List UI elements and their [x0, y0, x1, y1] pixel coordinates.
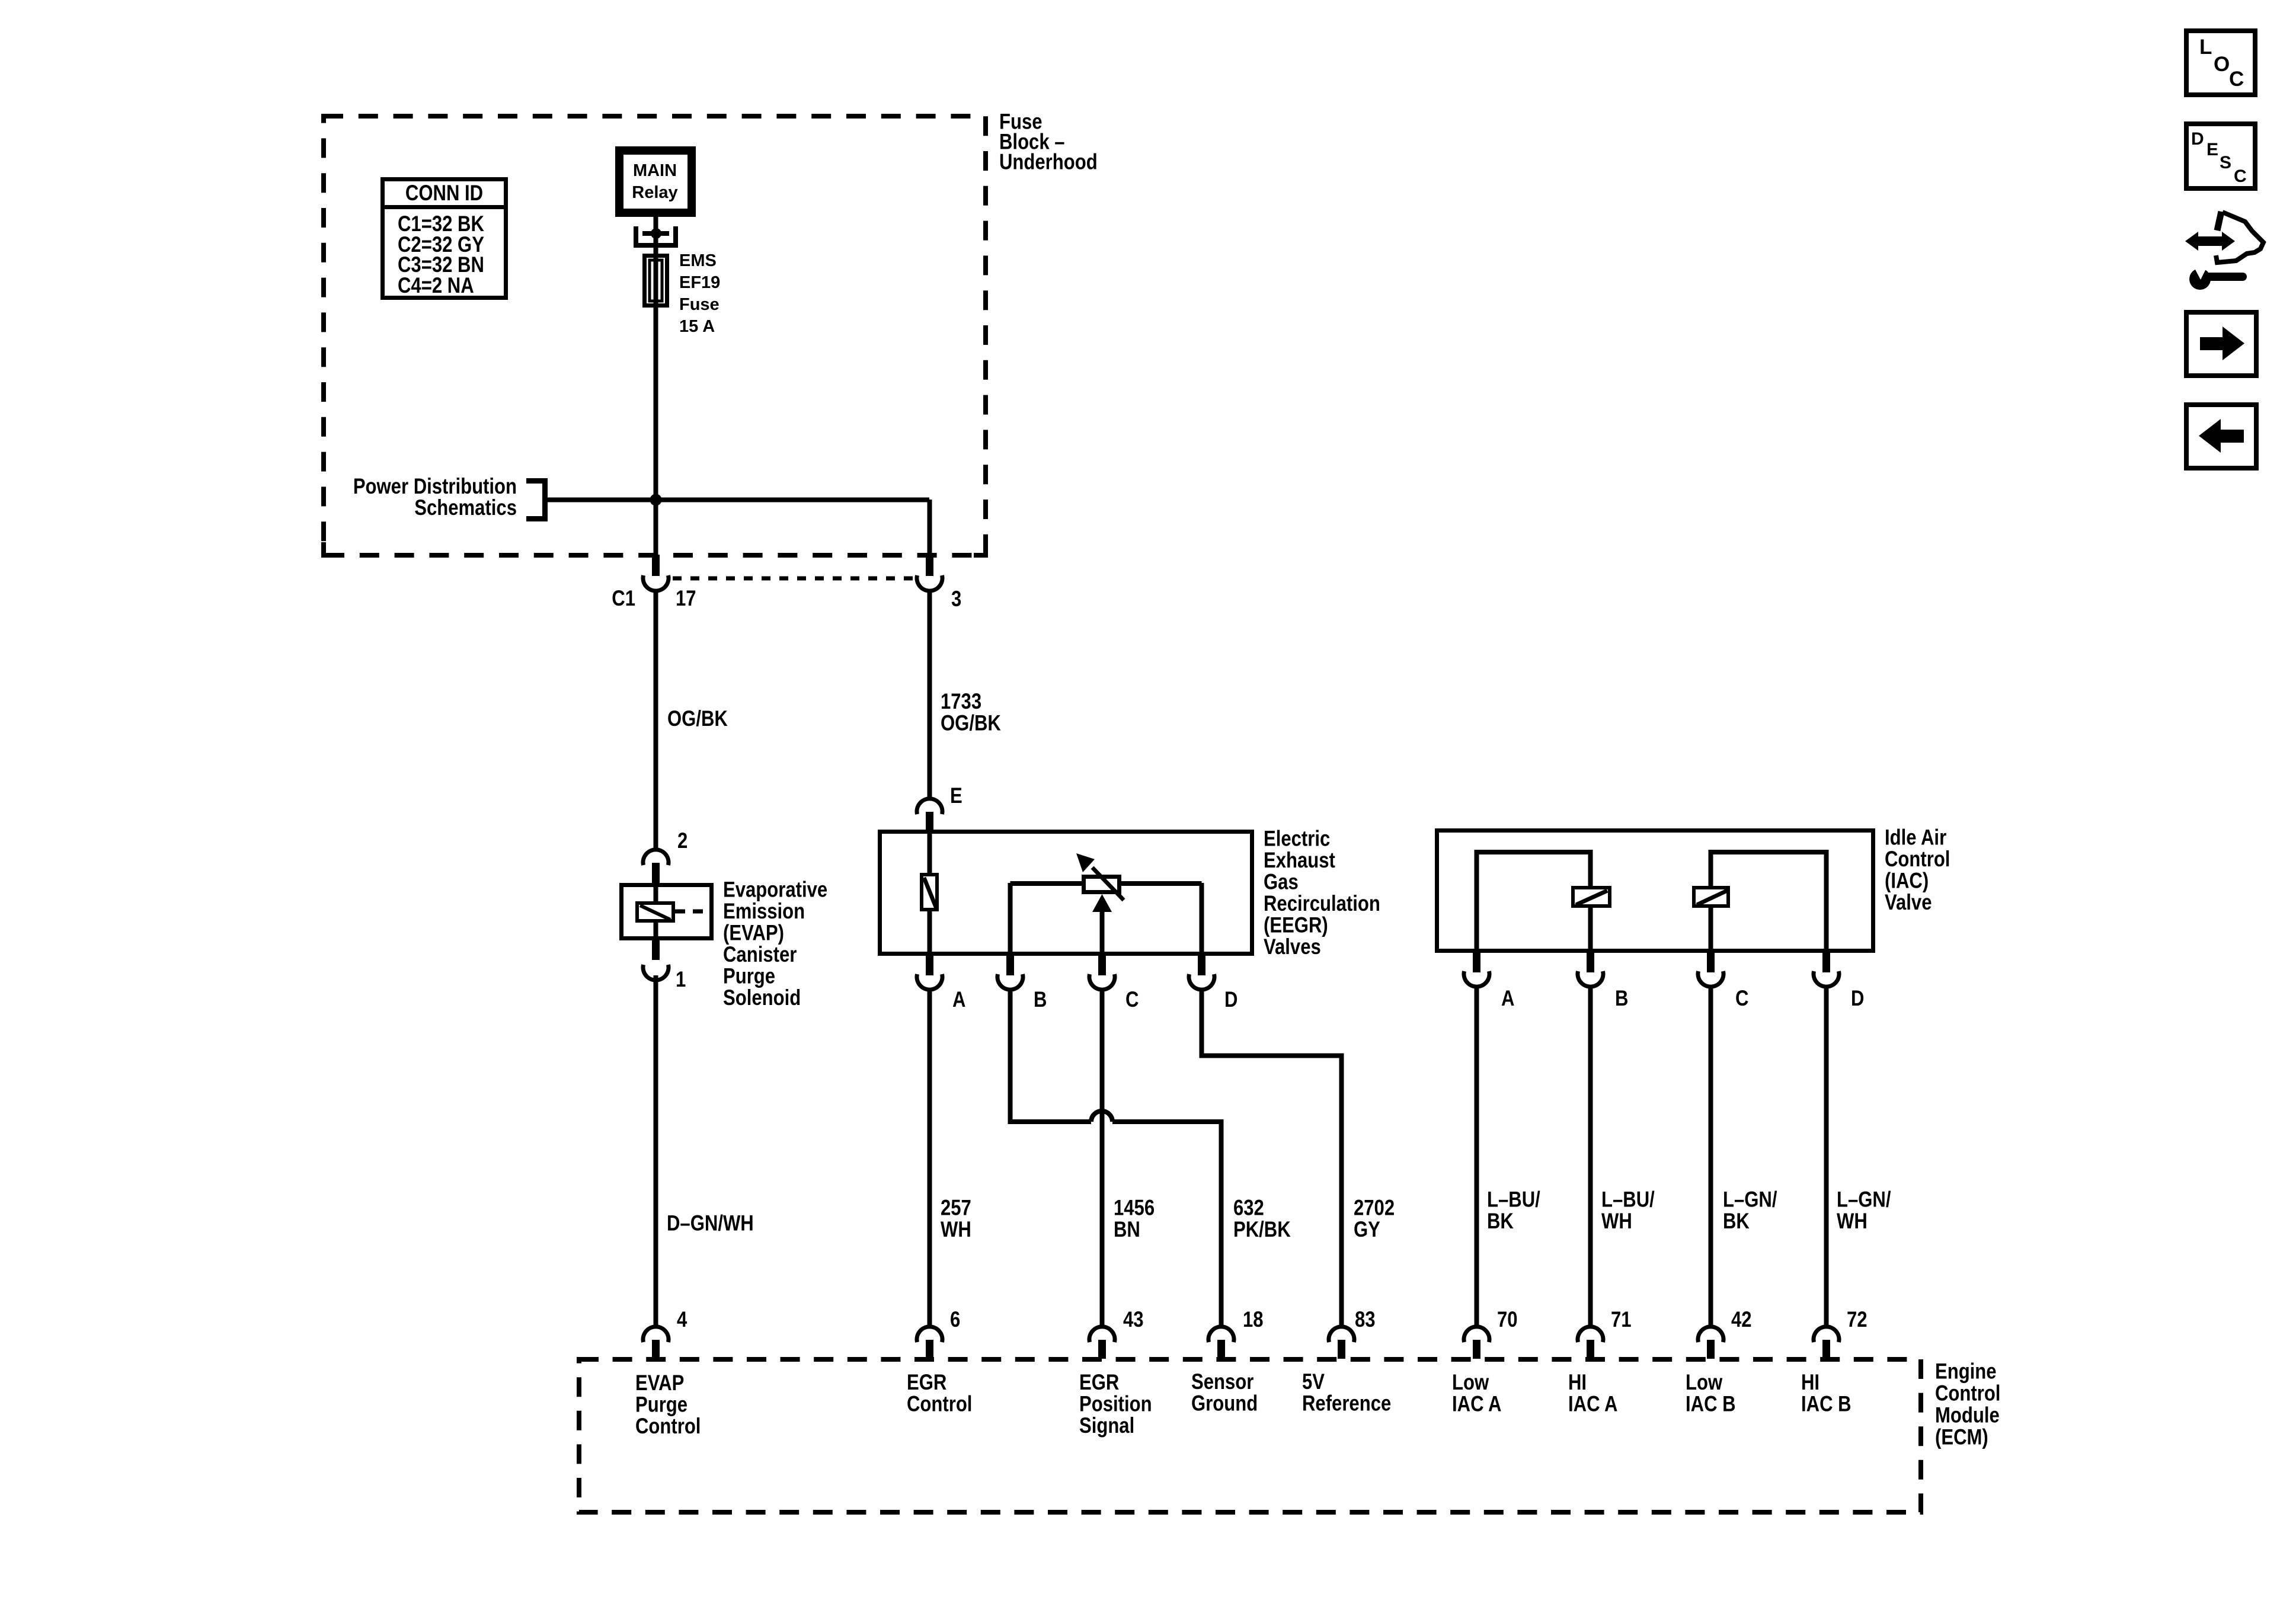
svg-text:L–GN/: L–GN/ — [1837, 1188, 1891, 1212]
svg-text:Module: Module — [1935, 1403, 2000, 1427]
svg-text:(EVAP): (EVAP) — [723, 921, 784, 945]
svg-text:HI: HI — [1568, 1371, 1587, 1395]
svg-text:Evaporative: Evaporative — [723, 878, 827, 902]
svg-text:C: C — [1735, 987, 1748, 1011]
svg-text:Recirculation: Recirculation — [1264, 892, 1380, 916]
svg-text:L–BU/: L–BU/ — [1487, 1188, 1540, 1212]
svg-text:S: S — [2220, 153, 2231, 172]
svg-text:IAC B: IAC B — [1686, 1392, 1736, 1416]
svg-text:O: O — [2214, 53, 2230, 76]
svg-text:GY: GY — [1354, 1218, 1380, 1242]
svg-text:IAC A: IAC A — [1568, 1392, 1617, 1416]
svg-text:83: 83 — [1355, 1308, 1376, 1332]
svg-text:Control: Control — [635, 1414, 701, 1439]
svg-text:Purge: Purge — [635, 1393, 687, 1417]
svg-text:Solenoid: Solenoid — [723, 986, 801, 1010]
svg-text:L–BU/: L–BU/ — [1601, 1188, 1655, 1212]
svg-text:IAC A: IAC A — [1452, 1392, 1501, 1416]
svg-text:BK: BK — [1723, 1209, 1750, 1234]
svg-text:6: 6 — [950, 1308, 960, 1332]
svg-text:BN: BN — [1114, 1218, 1140, 1242]
svg-text:Low: Low — [1452, 1371, 1489, 1395]
svg-text:Underhood: Underhood — [999, 150, 1098, 174]
svg-text:E: E — [2207, 140, 2218, 159]
svg-text:EVAP: EVAP — [635, 1371, 684, 1395]
svg-text:D: D — [1224, 988, 1237, 1012]
svg-text:5V: 5V — [1302, 1370, 1325, 1394]
svg-text:71: 71 — [1611, 1308, 1632, 1332]
svg-text:72: 72 — [1847, 1308, 1868, 1332]
svg-text:EGR: EGR — [907, 1371, 946, 1395]
svg-text:Reference: Reference — [1302, 1391, 1391, 1416]
svg-text:A: A — [1501, 987, 1514, 1011]
svg-text:MAIN: MAIN — [633, 161, 677, 180]
svg-text:Relay: Relay — [632, 183, 677, 202]
svg-text:CONN ID: CONN ID — [405, 181, 483, 206]
svg-text:Position: Position — [1079, 1392, 1152, 1416]
svg-text:B: B — [1615, 987, 1628, 1011]
svg-text:(EEGR): (EEGR) — [1264, 913, 1328, 937]
svg-text:Fuse: Fuse — [679, 295, 720, 314]
svg-text:Control: Control — [1885, 847, 1950, 872]
svg-text:Valve: Valve — [1885, 891, 1932, 915]
svg-text:B: B — [1034, 988, 1047, 1012]
svg-text:EGR: EGR — [1079, 1371, 1119, 1395]
svg-text:BK: BK — [1487, 1209, 1514, 1234]
svg-text:42: 42 — [1731, 1308, 1752, 1332]
svg-text:D: D — [1851, 987, 1864, 1011]
svg-text:Sensor: Sensor — [1191, 1370, 1253, 1394]
svg-text:(IAC): (IAC) — [1885, 869, 1929, 893]
svg-text:70: 70 — [1497, 1308, 1518, 1332]
svg-text:257: 257 — [941, 1196, 971, 1220]
svg-text:632: 632 — [1233, 1196, 1264, 1220]
svg-text:HI: HI — [1801, 1371, 1819, 1395]
svg-text:C: C — [1125, 988, 1139, 1012]
svg-text:C: C — [2229, 68, 2244, 91]
svg-text:WH: WH — [941, 1218, 971, 1242]
svg-text:Idle Air: Idle Air — [1885, 825, 1946, 850]
svg-text:WH: WH — [1601, 1209, 1632, 1234]
svg-text:Engine: Engine — [1935, 1359, 1997, 1384]
svg-text:PK/BK: PK/BK — [1233, 1218, 1291, 1242]
svg-text:2: 2 — [677, 829, 687, 853]
svg-text:Control: Control — [1935, 1381, 2000, 1406]
svg-text:Canister: Canister — [723, 943, 797, 967]
svg-text:Valves: Valves — [1264, 935, 1321, 959]
svg-text:Electric: Electric — [1264, 827, 1330, 851]
svg-text:Low: Low — [1686, 1371, 1723, 1395]
svg-text:Power Distribution: Power Distribution — [353, 475, 517, 499]
svg-text:15 A: 15 A — [679, 317, 715, 336]
svg-text:Emission: Emission — [723, 900, 805, 924]
svg-text:E: E — [950, 784, 962, 808]
svg-text:OG/BK: OG/BK — [667, 707, 728, 731]
svg-text:EF19: EF19 — [679, 273, 720, 292]
svg-text:WH: WH — [1837, 1209, 1868, 1234]
svg-text:D–GN/WH: D–GN/WH — [667, 1211, 754, 1235]
svg-text:IAC B: IAC B — [1801, 1392, 1851, 1416]
svg-text:Control: Control — [907, 1392, 972, 1416]
svg-text:Signal: Signal — [1079, 1414, 1134, 1438]
svg-text:Purge: Purge — [723, 964, 775, 988]
svg-text:1456: 1456 — [1114, 1196, 1155, 1220]
svg-text:Exhaust: Exhaust — [1264, 849, 1335, 873]
svg-text:1: 1 — [676, 968, 686, 992]
svg-text:D: D — [2191, 129, 2204, 149]
svg-text:A: A — [952, 988, 965, 1012]
svg-text:EMS: EMS — [679, 251, 717, 270]
svg-text:C4=2 NA: C4=2 NA — [398, 274, 474, 298]
svg-text:18: 18 — [1243, 1308, 1264, 1332]
svg-text:C: C — [2234, 167, 2247, 186]
svg-text:4: 4 — [677, 1308, 687, 1332]
svg-text:43: 43 — [1123, 1308, 1144, 1332]
svg-text:L–GN/: L–GN/ — [1723, 1188, 1777, 1212]
svg-text:C1: C1 — [612, 587, 635, 611]
svg-text:1733: 1733 — [941, 690, 981, 714]
svg-text:17: 17 — [676, 587, 696, 611]
svg-text:OG/BK: OG/BK — [941, 711, 1001, 735]
svg-text:3: 3 — [951, 587, 961, 612]
svg-text:L: L — [2199, 36, 2212, 59]
svg-text:(ECM): (ECM) — [1935, 1425, 1988, 1449]
svg-text:2702: 2702 — [1354, 1196, 1395, 1220]
svg-text:Gas: Gas — [1264, 870, 1299, 894]
svg-text:Ground: Ground — [1191, 1391, 1258, 1416]
svg-text:Schematics: Schematics — [414, 496, 517, 520]
